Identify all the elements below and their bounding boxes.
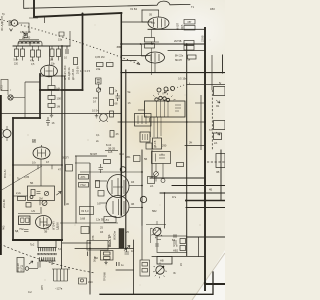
paper speck 2 — [94, 24, 97, 27]
box dial lamp bottom center — [80, 207, 94, 215]
arrow head of tuning link — [45, 17, 141, 65]
wire central vertical bus B+ — [120, 13, 122, 215]
socket pins left — [1, 126, 7, 141]
wire y150 stub — [105, 150, 118, 152]
arrow right panel b — [216, 132, 220, 135]
wire jack to bus — [13, 82, 25, 118]
wire speaker horizontal — [29, 268, 38, 270]
junction dot z — [140, 43, 142, 45]
wire agc horizontal — [121, 43, 204, 45]
svg-text:6П14П: 6П14П — [43, 223, 51, 227]
dashed diagonal bottom-left — [0, 244, 95, 273]
wire y172 center — [80, 171, 142, 173]
box on x90 wire — [81, 227, 89, 234]
svg-text:4б: 4б — [116, 132, 119, 136]
wire x90 upper extension — [89, 163, 91, 225]
wire right vertical x186 — [186, 44, 188, 256]
svg-text:1ВЗ: 1ВЗ — [210, 7, 215, 11]
wire gang box left stub — [138, 109, 145, 111]
junction dot j — [204, 121, 206, 123]
resistor R10 — [110, 88, 114, 95]
svg-text:2Б1: 2Б1 — [126, 155, 131, 159]
svg-text:5г: 5г — [219, 81, 221, 85]
wire heater bus bottom center — [60, 222, 118, 224]
resistor R27 above trimmer — [96, 78, 102, 84]
tube V1 output pentode top-left — [41, 65, 58, 77]
box y155 center — [134, 156, 141, 162]
resistor R25 mid right — [184, 41, 194, 46]
wire V4 top stub — [41, 145, 43, 147]
junction dot h — [204, 199, 207, 202]
box left of coil box — [146, 143, 152, 149]
trimmer cap b above tuning — [164, 87, 168, 91]
capacitor C3 — [46, 117, 50, 126]
wire audio coupling horizontal — [75, 248, 134, 250]
trimmer mid arrow — [97, 88, 101, 92]
resistor R24 right section — [145, 44, 155, 49]
paper speck 1 — [30, 8, 31, 9]
wire V3 top stub — [142, 44, 146, 56]
svg-text:6К4П: 6К4П — [175, 58, 182, 62]
capacitor C12 — [99, 164, 104, 173]
junction dot y — [186, 121, 188, 123]
capacitor C1 — [66, 46, 68, 54]
svg-text:1ДБ05: 1ДБ05 — [56, 222, 60, 230]
junction dot u — [141, 207, 143, 209]
arrow right panel a — [216, 100, 220, 103]
wire h145 right — [185, 145, 205, 147]
wire right stub y103 — [195, 102, 205, 104]
svg-text:6Б2П: 6Б2П — [62, 156, 69, 160]
tube V5 electrodes — [21, 218, 30, 223]
svg-text:5Б: 5Б — [144, 157, 147, 161]
box lower-left small region — [152, 152, 171, 164]
wire mid horizontal under tubes — [121, 72, 225, 74]
svg-text:ЗВ4: ЗВ4 — [119, 152, 124, 156]
wire lower right h178 — [150, 177, 205, 179]
junction dot c — [82, 13, 84, 15]
tube V4 socket small circle left — [3, 130, 11, 138]
paper light bottom-right corner — [193, 250, 225, 300]
junction dot d — [39, 89, 41, 91]
svg-text:5Б2: 5Б2 — [152, 209, 157, 213]
junction dot b — [120, 12, 122, 14]
svg-text:2Б0 5А: 2Б0 5А — [76, 66, 79, 74]
wire V1 grid up — [49, 46, 51, 66]
box right extra — [214, 133, 222, 140]
resistor R18 — [107, 63, 114, 67]
svg-text:220В: 220В — [201, 35, 205, 42]
tube V4 electrodes — [38, 149, 46, 158]
transformer T2 secondary — [39, 257, 56, 261]
wire right top section left vertical — [142, 10, 148, 22]
paper speck 5 — [28, 135, 29, 136]
svg-text:АП1: АП1 — [81, 175, 87, 179]
resistor R7 — [48, 86, 55, 90]
resistor R1 — [15, 49, 19, 57]
box power switch — [87, 241, 108, 251]
junction dot aa — [120, 72, 122, 74]
svg-text:Б4: Б4 — [172, 238, 176, 242]
junction dot i — [185, 200, 187, 202]
wire right edge short vertical — [222, 55, 224, 73]
junction dot r — [120, 121, 122, 123]
transformer T1 oscillator coil top-left — [18, 41, 42, 43]
svg-text:ДС-25 1Б: ДС-25 1Б — [71, 68, 75, 80]
box right lower small — [214, 121, 226, 130]
svg-text:2М 5Б: 2М 5Б — [174, 39, 182, 43]
tuning cap rotor circles — [155, 98, 158, 101]
wire top thin bus with antenna hump — [24, 0, 190, 8]
svg-text:0,05 1М: 0,05 1М — [95, 55, 104, 59]
wire det box left — [13, 195, 28, 197]
dashed stub right — [207, 161, 225, 163]
box right mid small — [214, 87, 226, 96]
resistor R22 bottom-left — [42, 201, 47, 206]
svg-text:6П14П: 6П14П — [52, 221, 56, 230]
svg-text:0,1: 0,1 — [97, 202, 101, 206]
svg-text:ГРОМК: ГРОМК — [103, 272, 107, 281]
svg-text:ДВ-СВ: ДВ-СВ — [154, 140, 157, 148]
svg-text:0,5ГД: 0,5ГД — [21, 265, 24, 271]
svg-text:8-10: 8-10 — [106, 143, 112, 147]
svg-text:24в: 24в — [96, 67, 101, 71]
tube V2 electrodes — [151, 18, 165, 28]
wire center left vertical — [75, 156, 77, 223]
svg-text:290: 290 — [162, 144, 167, 148]
resistor R16 — [104, 160, 111, 164]
components inside box — [156, 154, 166, 162]
svg-text:г405: г405 — [180, 24, 184, 30]
svg-text:2А: 2А — [214, 141, 217, 145]
svg-text:1,0: 1,0 — [32, 139, 36, 143]
capacitor C6 — [117, 262, 120, 266]
svg-text:0,68: 0,68 — [80, 217, 86, 221]
svg-text:2А: 2А — [150, 184, 153, 188]
svg-text:КТ2: КТ2 — [0, 85, 4, 90]
dark connector block — [119, 229, 124, 249]
page edge line bottom-right — [192, 253, 225, 300]
resistor R15 — [96, 181, 100, 188]
svg-text:Я1: Я1 — [216, 104, 220, 108]
svg-text:НВ2: НВ2 — [173, 249, 179, 253]
svg-text:1 2 3 4 5: 1 2 3 4 5 — [80, 69, 91, 73]
svg-text:Б2: Б2 — [153, 228, 157, 232]
wire y156 center — [75, 155, 107, 157]
svg-text:0,05: 0,05 — [24, 175, 30, 179]
transformer T1 winding ticks — [19, 41, 39, 44]
svg-text:Л1 Б2: Л1 Б2 — [130, 7, 138, 11]
svg-text:ВЫХ.ТР: ВЫХ.ТР — [108, 234, 112, 247]
box label V2 right — [184, 20, 195, 25]
small box lower-left section — [28, 186, 55, 201]
svg-text:2Б: 2Б — [180, 263, 183, 266]
svg-text:1Б: 1Б — [100, 230, 103, 234]
svg-text:0-2: 0-2 — [28, 290, 32, 294]
resistor R23 right section — [145, 38, 155, 43]
wire speaker vertical a — [29, 261, 33, 264]
svg-text:1б: 1б — [46, 160, 49, 164]
wire transformer top leads — [38, 240, 56, 248]
component top mid — [59, 32, 64, 36]
wire V1 bottom stub — [40, 74, 42, 76]
trimmer cap c above tuning — [171, 87, 175, 91]
wire left block vertical — [39, 74, 41, 118]
inner rect d — [142, 269, 148, 273]
svg-text:05Г: 05Г — [188, 21, 193, 24]
junction dot k — [125, 248, 127, 250]
svg-text:12к 3В: 12к 3В — [96, 218, 104, 222]
svg-text:Бг: Бг — [174, 271, 177, 275]
paper speck 4 — [149, 119, 152, 122]
svg-text:1М: 1М — [57, 105, 61, 109]
wire top-left bus — [13, 45, 70, 47]
power connector comb — [52, 269, 70, 281]
wire right main vertical — [204, 28, 206, 290]
svg-text:2СА-80: 2СА-80 — [2, 199, 6, 208]
junction dot x — [186, 43, 188, 45]
junction dot v — [186, 192, 188, 194]
wire right inner vertical — [200, 95, 202, 150]
wire second central vertical — [125, 70, 127, 248]
paper tint left-lower — [0, 140, 104, 250]
svg-text:150: 150 — [93, 96, 98, 100]
wire lower right h207 — [186, 207, 225, 209]
svg-text:КБС: КБС — [88, 280, 93, 284]
tuner section leads down — [151, 117, 162, 138]
svg-text:1Б: 1Б — [131, 180, 134, 184]
svg-text:ЗВ 2Б: ЗВ 2Б — [108, 147, 115, 151]
junction dot q — [204, 282, 206, 284]
wire y163 stub — [75, 162, 90, 164]
junction dot o — [12, 164, 14, 166]
wire pot P1 drop — [146, 221, 166, 243]
svg-text:75м: 75м — [19, 227, 24, 231]
box KT outline — [1, 80, 8, 91]
switch arrow bottom mid — [124, 246, 130, 251]
junction dot p — [61, 164, 63, 166]
transformer T1 leads — [18, 44, 42, 47]
wire resistor row drops lower — [17, 57, 59, 62]
capacitor C7 detector — [37, 192, 41, 194]
inner rect a — [104, 252, 111, 255]
svg-text:4Б: 4Б — [209, 188, 212, 192]
wire right edge lower vertical — [220, 150, 222, 200]
wire V3 bottom stub — [154, 63, 156, 73]
svg-text:5Б: 5Б — [30, 181, 33, 185]
inner rect b — [104, 257, 111, 260]
junction dot t — [141, 185, 143, 187]
svg-text:ПЧ2: ПЧ2 — [81, 183, 87, 187]
capacitor C9 in right box — [173, 235, 177, 243]
svg-text:ЗВГ: ЗВГ — [117, 45, 123, 49]
wire lower right h200 thick — [186, 200, 225, 202]
paper speck 14 — [209, 39, 212, 42]
wire column x51 — [51, 76, 53, 113]
tube V1 electrodes — [45, 66, 54, 77]
dashed vertical right lower — [211, 90, 213, 150]
resistor R6 — [57, 49, 61, 57]
box between tubes — [98, 191, 104, 197]
wire left double vertical b — [64, 76, 66, 205]
resistor R11 — [110, 100, 114, 106]
box around tone controls — [157, 236, 187, 253]
svg-text:0,1: 0,1 — [96, 133, 100, 137]
wire stub y22 — [121, 21, 152, 23]
battery symbol bottom-left-mid — [79, 278, 87, 284]
resistor R13 — [79, 175, 89, 180]
svg-text:НЧ: НЧ — [32, 209, 36, 213]
svg-text:1б: 1б — [128, 101, 131, 105]
wire input jack line — [25, 81, 41, 83]
svg-text:6П14П 2Б0: 6П14П 2Б0 — [63, 65, 67, 80]
svg-text:10г: 10г — [32, 161, 36, 165]
wire h270 — [116, 269, 134, 271]
small circle right of tubes — [140, 196, 146, 202]
tuning cap rotor circle d — [166, 98, 169, 101]
dashed diagonal tuner short — [168, 83, 190, 91]
capacitor C8 near V5 — [18, 207, 41, 232]
wire v152 lower — [151, 150, 153, 178]
svg-text:1и5: 1и5 — [108, 150, 113, 154]
paper speck 15 — [88, 140, 89, 141]
capacitor C5 — [125, 249, 130, 255]
paper tint center — [91, 64, 223, 180]
potentiometer P2 dots — [153, 263, 167, 279]
tube V6 electrodes — [40, 217, 47, 228]
paper speck 3 — [60, 90, 61, 91]
wire V7 left stub — [95, 180, 107, 182]
wire y243 to x90 — [62, 242, 90, 244]
tube V8 electrodes — [113, 199, 124, 215]
arrow tuner dash link — [164, 91, 168, 94]
wire right top stub — [142, 9, 159, 11]
transformer T2 leads — [40, 261, 52, 268]
small circle near speaker — [25, 267, 29, 271]
tuning cap rotor circle c — [163, 97, 166, 100]
capacitor C4 — [88, 252, 91, 257]
svg-text:Л4: Л4 — [106, 218, 110, 222]
potentiometer P1 tone — [153, 228, 161, 236]
wire tone box right vertical — [198, 237, 200, 257]
wire left tall vertical — [12, 118, 14, 240]
svg-text:5,1: 5,1 — [58, 247, 62, 251]
potentiometer P2 arrow — [156, 266, 164, 274]
wire left lower bus — [13, 164, 62, 166]
wire v164 lower — [164, 193, 166, 228]
wire speaker vertical b — [37, 262, 39, 268]
paper tint mid-low — [40, 215, 160, 295]
rotor tick marks — [153, 93, 176, 101]
wire shield right vertical — [82, 14, 84, 90]
trimmer detector — [44, 191, 48, 195]
svg-text:1б: 1б — [93, 100, 96, 104]
wire V7 right stub — [129, 185, 142, 187]
potentiometer P2 volume — [156, 266, 164, 274]
tuning cap rotor circle b — [159, 96, 162, 99]
resistor R17 — [97, 63, 104, 67]
resistor R20 detector — [31, 190, 35, 196]
left page black edge — [0, 95, 2, 255]
svg-text:6И1П: 6И1П — [176, 23, 180, 30]
tube V7 electrodes — [112, 178, 124, 196]
potentiometer P1 arrow — [151, 228, 162, 238]
wire V2 top stub — [158, 10, 160, 29]
junction dot w — [164, 192, 166, 194]
wire left block horizontal — [13, 117, 40, 119]
gang leads inside box — [157, 100, 169, 117]
circle top cap connector — [120, 167, 126, 173]
capacitor C11 left — [33, 139, 35, 143]
socket ticks — [99, 113, 108, 122]
wire lower right h193 — [160, 192, 225, 194]
wire y76 under V1 — [40, 75, 65, 77]
wire V4 bottom to box — [40, 159, 42, 186]
ground symbol left bus — [50, 113, 53, 117]
svg-text:1М: 1М — [50, 58, 54, 62]
transformer T1 core hatch — [19, 40, 39, 42]
junction dot n2 — [89, 242, 91, 244]
resistor R26 lower right — [177, 163, 184, 167]
junction dot e — [61, 45, 63, 47]
box bottom mid — [101, 251, 114, 261]
wire right y84 — [187, 84, 225, 86]
wire bottom long horizontal — [100, 272, 213, 294]
transformer T2 output primary — [38, 248, 57, 252]
wire v142 mid — [141, 150, 143, 225]
arrow right of det box — [57, 192, 62, 196]
wire band filter drops — [156, 164, 163, 182]
resistor R5 — [50, 49, 54, 57]
thin diagonal lower-left — [0, 166, 42, 191]
tube V5 small bottom-left — [19, 216, 31, 225]
wire v142 lower extension — [141, 225, 143, 260]
paper speck 10 — [139, 284, 142, 287]
svg-text:РА3: РА3 — [3, 225, 6, 230]
junction dot f — [61, 75, 63, 77]
wire right h237 — [187, 236, 225, 238]
wire top thick shield box — [34, 0, 121, 17]
paper speck 8 — [159, 204, 162, 207]
tube V7 double triode upper — [107, 175, 129, 198]
paper background — [0, 0, 225, 300]
capacitor C2 — [116, 93, 121, 101]
wire bus ticks — [38, 165, 52, 169]
paper light top-right — [147, 0, 243, 68]
junction dot l — [151, 43, 153, 45]
wire trimmer column — [98, 84, 100, 114]
trimmer cap a above tuning — [157, 88, 161, 92]
arrow mic path — [22, 32, 28, 38]
junction dot s — [141, 171, 143, 173]
dashed vertical right section — [211, 55, 213, 90]
dashed diagonal tuning link top — [0, 20, 140, 65]
wire x61.5 to comb — [61, 240, 63, 269]
tube V4 left mid — [33, 147, 50, 159]
tube V3 electrodes — [151, 53, 159, 62]
svg-text:6И1П: 6И1П — [90, 152, 97, 156]
resistor R8 — [48, 96, 55, 100]
tube V2 converter right-top — [148, 17, 169, 29]
box right low near v142 — [140, 260, 150, 276]
svg-text:ВЧ 22к: ВЧ 22к — [175, 54, 184, 58]
resistor R29 — [110, 131, 114, 138]
wire bus drops — [17, 46, 59, 50]
svg-text:10 5ч: 10 5ч — [92, 109, 99, 113]
svg-text:5ГБ: 5ГБ — [173, 244, 178, 248]
resistor R2 — [21, 49, 25, 57]
svg-text:ЗВ: ЗВ — [216, 170, 220, 174]
